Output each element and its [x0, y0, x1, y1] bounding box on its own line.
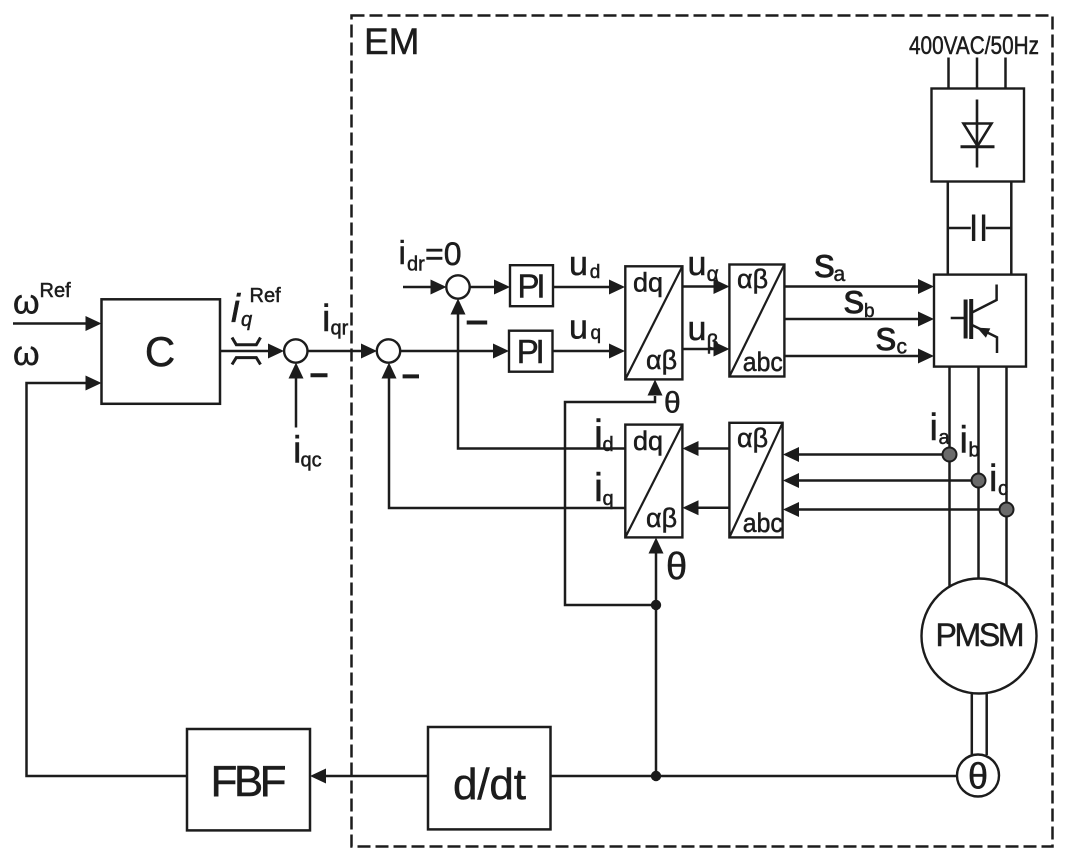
svg-text:=0: =0 [425, 236, 461, 272]
motor PMSM [922, 579, 1037, 694]
wire 3-phase input lines [949, 58, 1006, 90]
svg-text:dq: dq [633, 426, 663, 456]
svg-text:PMSM: PMSM [936, 617, 1025, 653]
wire iq feedback to S2 [389, 376, 625, 508]
svg-text:qr: qr [331, 318, 349, 340]
svg-text:ω: ω [13, 284, 40, 322]
wire idr input [403, 286, 433, 289]
rectifier block [932, 89, 1025, 182]
svg-text:b: b [969, 440, 980, 462]
IGBT symbol [951, 285, 997, 354]
wire d/dt to FBF [324, 775, 428, 778]
svg-text:ω: ω [13, 335, 40, 373]
wire u beta [683, 348, 717, 351]
summing junction S3 [446, 275, 469, 298]
block dq/ab upper [625, 266, 682, 379]
wire shaft [972, 693, 987, 755]
block d/dt [428, 727, 551, 829]
svg-text:αβ: αβ [737, 264, 768, 294]
node ic tap [1000, 503, 1014, 517]
svg-text:Ref: Ref [40, 280, 72, 302]
svg-text:s: s [814, 239, 835, 286]
wire S3 to PI1 [470, 286, 496, 289]
svg-text:q: q [603, 488, 614, 510]
block PI1 [510, 265, 553, 306]
svg-text:i: i [399, 234, 406, 271]
wire sc [785, 355, 921, 358]
minus sign S2 [403, 374, 419, 378]
wire id feedback to S3 [458, 312, 625, 449]
node junction theta branch [651, 600, 661, 610]
svg-text:dq: dq [633, 268, 663, 298]
wire S1 to S2 [308, 350, 364, 353]
svg-text:θ: θ [664, 387, 681, 420]
svg-text:i: i [930, 407, 938, 449]
svg-text:PI: PI [517, 333, 545, 370]
wire theta main vertical [655, 551, 658, 776]
svg-text:d: d [603, 434, 614, 456]
svg-text:d: d [590, 262, 601, 283]
svg-text:αβ: αβ [737, 423, 768, 453]
inverter block [934, 275, 1026, 367]
svg-text:dr: dr [407, 254, 425, 276]
summing junction S2 [377, 339, 400, 362]
svg-text:PI: PI [518, 268, 546, 305]
node ib tap [972, 474, 986, 488]
svg-text:abc: abc [743, 347, 783, 377]
svg-text:C: C [145, 328, 175, 375]
svg-text:u: u [569, 309, 588, 347]
svg-text:i: i [989, 458, 997, 500]
block PI2 [509, 331, 553, 372]
wire u alpha [683, 285, 717, 288]
EM dashed boundary box [352, 16, 1053, 847]
minus sign S1 [311, 373, 328, 377]
wire ab to dq beta [697, 507, 729, 510]
svg-text:c: c [998, 478, 1008, 500]
wire ab to dq alpha [697, 447, 729, 450]
svg-text:FBF: FBF [211, 757, 287, 806]
minus sign S3 [467, 321, 488, 325]
block dq/ab lower [625, 425, 682, 538]
wire PI1 to dq [553, 286, 611, 289]
wire inverter outputs to motor [950, 367, 1007, 587]
block FBF [187, 729, 310, 830]
wire PI2 to dq [553, 350, 612, 353]
capacitor C [948, 215, 1012, 242]
svg-text:s: s [876, 312, 897, 359]
wire C output to S1 [220, 350, 270, 353]
svg-text:θ: θ [666, 546, 687, 588]
svg-text:qc: qc [301, 450, 322, 472]
svg-text:αβ: αβ [646, 503, 677, 533]
svg-text:αβ: αβ [646, 345, 677, 375]
block ab/abc upper [729, 264, 784, 377]
svg-text:i: i [960, 420, 968, 462]
wire iqc input [295, 376, 298, 428]
encoder theta [957, 755, 999, 797]
svg-text:s: s [844, 275, 865, 322]
svg-text:u: u [569, 245, 588, 283]
wire ic sense [798, 508, 1007, 511]
svg-text:Ref: Ref [250, 285, 282, 307]
wire DC link [948, 182, 1012, 276]
wire theta to upper dq [565, 396, 656, 605]
svg-text:i: i [322, 298, 330, 340]
wire omega ref input [13, 322, 88, 325]
svg-text:q: q [591, 323, 602, 344]
wire ia sense [798, 453, 950, 456]
svg-text:400VAC/50Hz: 400VAC/50Hz [909, 32, 1039, 60]
wire ib sense [798, 479, 979, 482]
svg-text:q: q [241, 309, 252, 331]
svg-text:EM: EM [364, 21, 420, 62]
svg-text:abc: abc [743, 508, 783, 538]
svg-text:a: a [939, 427, 951, 449]
wire S2 to PI2 [400, 350, 495, 353]
svg-text:d/dt: d/dt [453, 760, 526, 809]
svg-text:θ: θ [968, 756, 988, 797]
svg-text:i: i [231, 287, 241, 331]
diode symbol [961, 100, 995, 168]
svg-text:u: u [688, 245, 707, 283]
wire sb [785, 318, 921, 321]
node ia tap [943, 448, 957, 462]
node junction theta bottom [651, 771, 661, 781]
svg-text:u: u [688, 310, 707, 348]
wire encoder to d/dt [551, 775, 958, 778]
break symbol on wire [232, 338, 261, 365]
block ab/abc lower [729, 423, 782, 538]
summing junction S1 [284, 339, 307, 362]
block C [102, 299, 221, 404]
wire omega feedback [27, 383, 188, 776]
wire sa [785, 285, 921, 288]
